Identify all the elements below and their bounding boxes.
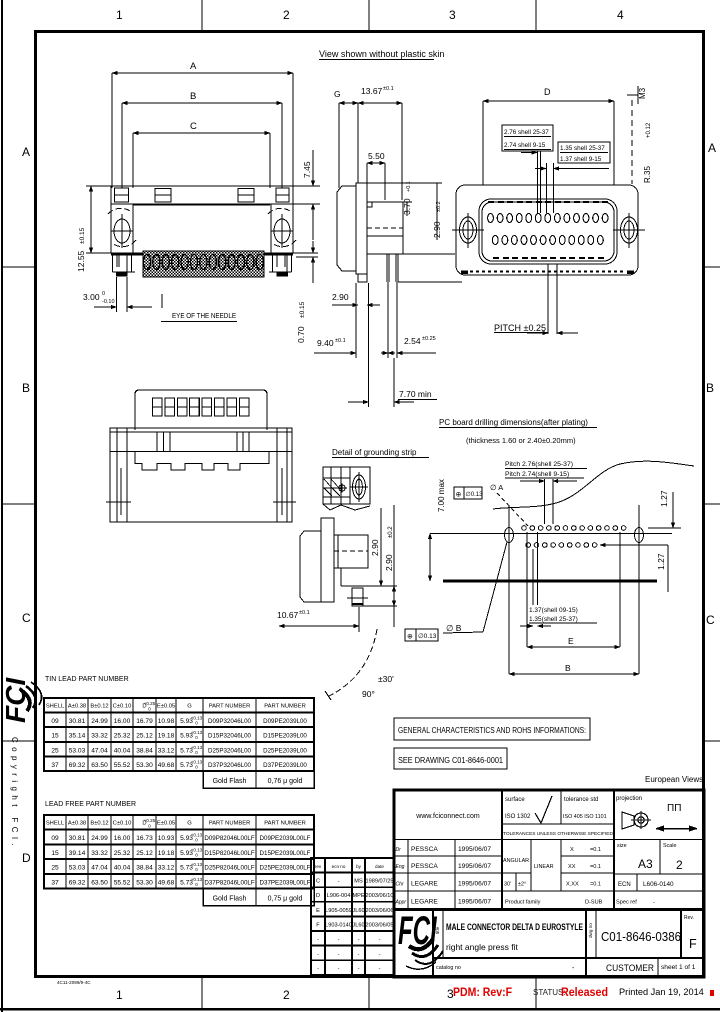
svg-text:JL60: JL60 <box>352 922 364 928</box>
svg-text:39.14: 39.14 <box>69 850 86 857</box>
svg-text:L903-0140: L903-0140 <box>325 922 352 928</box>
svg-text:±0.15: ±0.15 <box>299 301 306 318</box>
svg-text:33.32: 33.32 <box>91 733 108 740</box>
svg-text:Detail of grounding strip: Detail of grounding strip <box>332 448 417 457</box>
svg-text:G: G <box>187 821 192 827</box>
svg-text:Copyright FCI.: Copyright FCI. <box>10 737 19 850</box>
svg-text:D15P32046L00: D15P32046L00 <box>208 733 252 740</box>
svg-text:tolerance std: tolerance std <box>564 797 598 803</box>
svg-text:D15PE2039L00: D15PE2039L00 <box>263 733 307 740</box>
svg-text:LINEAR: LINEAR <box>534 864 554 870</box>
svg-text:2003/06/05: 2003/06/05 <box>366 922 394 928</box>
svg-text:16.73: 16.73 <box>136 835 153 842</box>
svg-text:0: 0 <box>102 291 105 297</box>
svg-text:33.12: 33.12 <box>158 865 175 872</box>
svg-text:1995/06/07: 1995/06/07 <box>458 881 491 888</box>
svg-text:2: 2 <box>283 988 290 1002</box>
svg-text:+0.12: +0.12 <box>646 122 652 138</box>
svg-text:(thickness 1.60 or 2.40±0.20mm: (thickness 1.60 or 2.40±0.20mm) <box>466 436 576 445</box>
svg-text:40.04: 40.04 <box>114 865 131 872</box>
svg-text:0,76 μ gold: 0,76 μ gold <box>268 778 303 785</box>
svg-text:16.00: 16.00 <box>114 835 131 842</box>
svg-text:15: 15 <box>51 850 59 857</box>
svg-text:LEGARE: LEGARE <box>411 899 438 906</box>
svg-text:C±0.10: C±0.10 <box>113 704 132 710</box>
svg-text:Spec ref: Spec ref <box>616 900 637 906</box>
svg-text:2.90: 2.90 <box>332 292 349 302</box>
svg-text:TOLERANCES UNLESS OTHERWISE SP: TOLERANCES UNLESS OTHERWISE SPECIFIED <box>503 831 613 837</box>
svg-text:R.35: R.35 <box>643 166 652 183</box>
svg-text:10.93: 10.93 <box>158 835 175 842</box>
svg-text:∅0.13: ∅0.13 <box>466 491 484 498</box>
svg-text:X.XX: X.XX <box>566 882 579 888</box>
svg-text:B±0.12: B±0.12 <box>90 821 108 827</box>
svg-text:⊕: ⊕ <box>407 634 413 641</box>
svg-text:25.12: 25.12 <box>136 850 153 857</box>
svg-text:1.35(shell 25-37): 1.35(shell 25-37) <box>529 616 578 623</box>
svg-text:Product family: Product family <box>505 900 541 906</box>
svg-text:10.98: 10.98 <box>158 718 175 725</box>
svg-text:15: 15 <box>51 733 59 740</box>
svg-text:53.30: 53.30 <box>136 762 153 769</box>
svg-text:2.90: 2.90 <box>384 554 394 571</box>
svg-text:7.00 max: 7.00 max <box>437 479 446 512</box>
svg-text:MPE: MPE <box>352 893 364 899</box>
svg-text:±0.1: ±0.1 <box>299 610 310 616</box>
svg-text:ISO 1302: ISO 1302 <box>505 814 531 820</box>
svg-text:33.32: 33.32 <box>91 850 108 857</box>
svg-text:1.27: 1.27 <box>659 490 669 507</box>
svg-text:MALE CONNECTOR DELTA D EUROSTY: MALE CONNECTOR DELTA D EUROSTYLE <box>446 921 583 932</box>
svg-text:2.74 shell 9-15: 2.74 shell 9-15 <box>504 142 546 149</box>
svg-text:M3: M3 <box>638 87 647 99</box>
svg-text:MS: MS <box>354 879 363 885</box>
svg-text:16.79: 16.79 <box>136 718 153 725</box>
svg-text:PART NUMBER: PART NUMBER <box>209 821 251 827</box>
svg-text:2.54: 2.54 <box>404 336 421 346</box>
svg-text:5.50: 5.50 <box>368 151 385 161</box>
svg-text:09: 09 <box>51 835 59 842</box>
svg-text:1: 1 <box>116 988 123 1002</box>
svg-text:-: - <box>379 937 381 943</box>
svg-text:7.45: 7.45 <box>302 161 312 178</box>
svg-text:63.50: 63.50 <box>91 879 108 886</box>
svg-text:Rev.: Rev. <box>684 915 694 921</box>
svg-text:2: 2 <box>283 8 290 22</box>
svg-text:9.40: 9.40 <box>317 338 334 348</box>
svg-text:±30': ±30' <box>378 674 394 684</box>
svg-text:53.03: 53.03 <box>69 747 86 754</box>
svg-text:B±0.12: B±0.12 <box>90 704 108 710</box>
svg-text:25: 25 <box>51 747 59 754</box>
svg-text:PC board drilling dimensions(a: PC board drilling dimensions(after plati… <box>439 418 588 427</box>
svg-text:ANGULAR: ANGULAR <box>503 858 529 864</box>
svg-text:09: 09 <box>51 718 59 725</box>
svg-text:A: A <box>708 141 716 155</box>
svg-text:1: 1 <box>116 8 123 22</box>
svg-text:1.37(shell 09-15): 1.37(shell 09-15) <box>529 607 578 614</box>
svg-text:90°: 90° <box>362 689 375 699</box>
svg-text:33.12: 33.12 <box>158 747 175 754</box>
svg-text:3.00: 3.00 <box>83 292 100 302</box>
svg-text:10.67: 10.67 <box>277 610 299 620</box>
svg-text:View shown without plastic ski: View shown without plastic skin <box>319 49 444 59</box>
svg-text:Printed Jan 19, 2014: Printed Jan 19, 2014 <box>619 987 704 997</box>
svg-text:7.70 min: 7.70 min <box>399 389 432 399</box>
svg-text:TIN LEAD PART NUMBER: TIN LEAD PART NUMBER <box>45 676 129 683</box>
svg-text:JL60: JL60 <box>352 908 364 914</box>
svg-text:-: - <box>379 952 381 958</box>
svg-text:Chr: Chr <box>396 882 404 888</box>
svg-text:2.76 shell 25-37: 2.76 shell 25-37 <box>504 129 549 136</box>
svg-text:55.52: 55.52 <box>114 762 131 769</box>
svg-text:30.81: 30.81 <box>69 835 86 842</box>
svg-text:1.35 shell 25-37: 1.35 shell 25-37 <box>560 145 605 152</box>
svg-text:surface: surface <box>505 797 525 803</box>
svg-text:www.fciconnect.com: www.fciconnect.com <box>415 813 480 820</box>
svg-text:-: - <box>338 937 340 943</box>
svg-text:63.50: 63.50 <box>91 762 108 769</box>
svg-text:4C11-2099/9-4C: 4C11-2099/9-4C <box>57 980 91 985</box>
svg-text:3: 3 <box>449 8 456 22</box>
svg-text:-: - <box>358 937 360 943</box>
svg-text:A: A <box>190 61 197 72</box>
svg-text:25.12: 25.12 <box>136 733 153 740</box>
svg-text:Released: Released <box>561 985 608 999</box>
svg-text:D-SUB: D-SUB <box>585 900 603 906</box>
svg-text:C: C <box>190 121 197 132</box>
svg-text:∅0.13: ∅0.13 <box>418 633 437 640</box>
svg-text:SHELL: SHELL <box>46 704 65 710</box>
svg-text:±2°: ±2° <box>518 882 526 888</box>
svg-text:PART NUMBER: PART NUMBER <box>209 704 251 710</box>
svg-text:B: B <box>706 381 714 395</box>
svg-text:D37P32046L00: D37P32046L00 <box>208 762 252 769</box>
svg-text:12.55: 12.55 <box>76 250 86 272</box>
svg-text:-: - <box>317 952 319 958</box>
svg-text:B: B <box>190 91 196 102</box>
svg-text:-: - <box>338 952 340 958</box>
svg-text:69.32: 69.32 <box>69 762 86 769</box>
svg-text:±0.2: ±0.2 <box>388 526 394 538</box>
svg-text:D: D <box>544 87 551 97</box>
svg-text:49.68: 49.68 <box>158 879 175 886</box>
svg-text:D15P82046L00LF: D15P82046L00LF <box>204 850 254 857</box>
svg-text:PART NUMBER: PART NUMBER <box>264 704 306 710</box>
svg-text:PITCH ±0.25: PITCH ±0.25 <box>494 323 546 333</box>
svg-text:A±0.38: A±0.38 <box>68 704 86 710</box>
svg-text:Dr: Dr <box>396 847 402 853</box>
svg-text:XX: XX <box>568 864 576 870</box>
svg-text:ecn no: ecn no <box>332 864 346 869</box>
svg-text:projection: projection <box>616 796 642 802</box>
svg-text:D15PE2039L00LF: D15PE2039L00LF <box>260 850 311 857</box>
svg-text:ΠΠ: ΠΠ <box>667 803 681 814</box>
svg-text:-: - <box>653 900 655 906</box>
svg-text:40.04: 40.04 <box>114 747 131 754</box>
svg-text:1995/06/07: 1995/06/07 <box>458 899 491 906</box>
svg-text:G: G <box>334 89 341 99</box>
svg-text:47.04: 47.04 <box>91 865 108 872</box>
svg-text:EYE OF THE NEEDLE: EYE OF THE NEEDLE <box>172 311 236 320</box>
svg-text:-: - <box>317 966 319 972</box>
svg-text:69.32: 69.32 <box>69 879 86 886</box>
svg-text:30.81: 30.81 <box>69 718 86 725</box>
svg-text:±0.2: ±0.2 <box>436 201 442 212</box>
svg-text:35.14: 35.14 <box>69 733 86 740</box>
svg-text:date: date <box>375 864 384 869</box>
svg-text:2003/06/06: 2003/06/06 <box>366 908 394 914</box>
svg-text:D: D <box>316 893 320 899</box>
svg-text:=0.1: =0.1 <box>590 847 601 853</box>
svg-text:∅ B: ∅ B <box>446 623 462 633</box>
svg-text:2.90: 2.90 <box>370 539 380 556</box>
svg-text:37: 37 <box>51 762 59 769</box>
svg-text:D25P32046L00: D25P32046L00 <box>208 747 252 754</box>
svg-text:Eng: Eng <box>396 864 405 870</box>
svg-text:1995/06/07: 1995/06/07 <box>458 863 491 870</box>
svg-text:30': 30' <box>504 882 511 888</box>
svg-text:catalog no: catalog no <box>436 965 461 971</box>
svg-text:=0.1: =0.1 <box>590 882 601 888</box>
svg-text:LEAD FREE PART NUMBER: LEAD FREE PART NUMBER <box>45 801 136 808</box>
svg-text:+0.1: +0.1 <box>406 181 412 192</box>
svg-text:D37PE2039L00: D37PE2039L00 <box>263 762 307 769</box>
svg-text:D09P82046L00LF: D09P82046L00LF <box>204 835 254 842</box>
svg-text:SEE DRAWING C01-8646-0001: SEE DRAWING C01-8646-0001 <box>398 756 504 765</box>
svg-text:ECN: ECN <box>618 882 631 888</box>
svg-text:PESSCA: PESSCA <box>411 846 438 853</box>
svg-text:0,75 μ gold: 0,75 μ gold <box>268 896 303 903</box>
svg-text:24.99: 24.99 <box>91 718 108 725</box>
svg-text:Appr: Appr <box>395 900 407 906</box>
svg-text:D25PE2039L00: D25PE2039L00 <box>263 747 307 754</box>
svg-text:1.27: 1.27 <box>656 553 666 570</box>
svg-text:SHELL: SHELL <box>46 821 65 827</box>
svg-text:FCI: FCI <box>0 677 31 723</box>
svg-text:by: by <box>356 864 362 869</box>
svg-text:right angle press fit: right angle press fit <box>446 942 518 952</box>
svg-text:-: - <box>338 879 340 885</box>
svg-text:2: 2 <box>676 858 683 872</box>
svg-text:sheet 1 of 1: sheet 1 of 1 <box>661 964 696 971</box>
svg-text:L906-004: L906-004 <box>327 893 351 899</box>
svg-text:±0.15: ±0.15 <box>79 227 86 244</box>
svg-text:X: X <box>570 847 574 853</box>
svg-text:rev: rev <box>315 864 322 869</box>
svg-text:-: - <box>317 937 319 943</box>
svg-text:PESSCA: PESSCA <box>411 863 438 870</box>
svg-text:size: size <box>617 843 627 849</box>
svg-text:GENERAL CHARACTERISTICS AND RO: GENERAL CHARACTERISTICS AND ROHS INFORMA… <box>398 726 586 735</box>
svg-text:L905-0059: L905-0059 <box>325 908 352 914</box>
svg-text:PDM: Rev:F: PDM: Rev:F <box>453 985 512 999</box>
svg-text:A3: A3 <box>638 857 653 871</box>
svg-text:D: D <box>22 851 31 865</box>
svg-text:0.70: 0.70 <box>296 326 306 343</box>
svg-text:dwg no: dwg no <box>588 923 593 938</box>
svg-text:-0.10: -0.10 <box>102 299 115 305</box>
svg-text:25.32: 25.32 <box>114 733 131 740</box>
svg-text:±0.1: ±0.1 <box>383 86 394 92</box>
svg-text:38.84: 38.84 <box>136 747 153 754</box>
svg-text:13.67: 13.67 <box>361 86 383 96</box>
svg-text:+0.25: +0.25 <box>144 818 156 823</box>
svg-text:B: B <box>565 663 571 673</box>
svg-text:PART NUMBER: PART NUMBER <box>264 821 306 827</box>
svg-text:B: B <box>22 381 30 395</box>
svg-text:L606-0140: L606-0140 <box>643 881 674 888</box>
svg-text:Scale: Scale <box>663 843 677 849</box>
svg-text:∅ A: ∅ A <box>490 483 503 492</box>
svg-text:25: 25 <box>51 865 59 872</box>
svg-text:D09PE2039L00: D09PE2039L00 <box>263 718 307 725</box>
svg-text:±0.1: ±0.1 <box>335 338 346 344</box>
svg-text:FCI: FCI <box>398 908 437 953</box>
svg-text:Gold Flash: Gold Flash <box>213 778 247 785</box>
svg-text:C: C <box>22 611 31 625</box>
svg-text:European Views: European Views <box>645 775 703 784</box>
svg-text:24.99: 24.99 <box>91 835 108 842</box>
svg-text:53.03: 53.03 <box>69 865 86 872</box>
svg-text:D09P32046L00: D09P32046L00 <box>208 718 252 725</box>
svg-text:49.68: 49.68 <box>158 762 175 769</box>
svg-text:C: C <box>316 879 320 885</box>
svg-text:E±0.05: E±0.05 <box>157 704 175 710</box>
svg-text:1.37 shell 9-15: 1.37 shell 9-15 <box>560 156 602 163</box>
svg-text:-: - <box>358 966 360 972</box>
svg-text:37: 37 <box>51 879 59 886</box>
svg-text:⊕: ⊕ <box>456 492 462 499</box>
svg-text:53.30: 53.30 <box>136 879 153 886</box>
svg-text:D25PE2039L00LF: D25PE2039L00LF <box>260 865 311 872</box>
svg-text:=0.1: =0.1 <box>590 864 601 870</box>
svg-text:G: G <box>187 704 192 710</box>
svg-text:1995/06/07: 1995/06/07 <box>458 846 491 853</box>
svg-text:CUSTOMER: CUSTOMER <box>606 962 654 973</box>
svg-text:Gold Flash: Gold Flash <box>213 896 247 903</box>
svg-text:-: - <box>338 966 340 972</box>
svg-text:F: F <box>689 937 697 951</box>
svg-text:D09PE2039L00LF: D09PE2039L00LF <box>260 835 311 842</box>
svg-text:Pitch 2.74(shell 9-15): Pitch 2.74(shell 9-15) <box>505 471 569 478</box>
svg-text:16.00: 16.00 <box>114 718 131 725</box>
svg-text:LEGARE: LEGARE <box>411 881 438 888</box>
svg-text:C±0.10: C±0.10 <box>113 821 132 827</box>
svg-text:-: - <box>379 966 381 972</box>
svg-text:ISO 405 ISO 1101: ISO 405 ISO 1101 <box>563 814 607 820</box>
svg-text:A: A <box>22 145 30 159</box>
svg-text:E±0.05: E±0.05 <box>157 821 175 827</box>
svg-text:4: 4 <box>617 8 624 22</box>
svg-text:±0.25: ±0.25 <box>422 336 436 342</box>
svg-text:2003/06/10: 2003/06/10 <box>366 893 394 899</box>
svg-text:E: E <box>316 908 320 914</box>
svg-text:C01-8646-0386: C01-8646-0386 <box>601 930 681 944</box>
svg-text:19.18: 19.18 <box>158 733 175 740</box>
svg-text:Pitch 2.76(shell 25-37): Pitch 2.76(shell 25-37) <box>505 461 573 468</box>
svg-text:D37PE2039L00LF: D37PE2039L00LF <box>260 879 311 886</box>
svg-text:55.52: 55.52 <box>114 879 131 886</box>
svg-text:2.90: 2.90 <box>432 221 442 238</box>
svg-text:25.32: 25.32 <box>114 850 131 857</box>
svg-text:C: C <box>706 613 715 627</box>
svg-text:19.18: 19.18 <box>158 850 175 857</box>
svg-text:38.84: 38.84 <box>136 865 153 872</box>
svg-text:-: - <box>358 952 360 958</box>
svg-text:+0.25: +0.25 <box>144 701 156 706</box>
svg-text:A±0.38: A±0.38 <box>68 821 86 827</box>
svg-text:F: F <box>316 922 320 928</box>
svg-text:1989/07/25: 1989/07/25 <box>366 879 394 885</box>
svg-text:D25P82046L00LF: D25P82046L00LF <box>204 865 254 872</box>
svg-text:E: E <box>568 636 574 646</box>
svg-text:47.04: 47.04 <box>91 747 108 754</box>
svg-text:D37P82046L00LF: D37P82046L00LF <box>204 879 254 886</box>
svg-text:3.70: 3.70 <box>402 198 412 215</box>
